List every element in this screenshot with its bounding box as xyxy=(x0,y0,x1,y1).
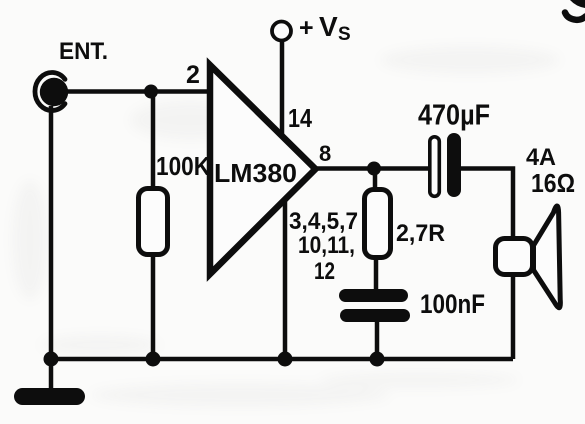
input jack ENT. xyxy=(35,73,68,111)
svg-text:V: V xyxy=(319,11,338,42)
svg-text:10,11,: 10,11, xyxy=(298,232,355,259)
capacitor 470uF xyxy=(430,133,461,197)
svg-text:ENT.: ENT. xyxy=(59,38,108,65)
resistor 100K xyxy=(139,189,168,255)
pin 12 label xyxy=(314,258,335,285)
pin 2 label xyxy=(186,61,200,89)
svg-text:8: 8 xyxy=(319,141,331,166)
node: 100nF/rail junction xyxy=(370,352,385,367)
speaker xyxy=(496,206,561,308)
wire: 100nF to rail xyxy=(375,320,380,359)
wire: speaker to rail xyxy=(511,276,516,359)
terminal +Vs xyxy=(272,22,291,41)
wire: ground stem xyxy=(49,359,54,392)
node: LM380 ground/rail junction xyxy=(278,352,293,367)
pin 14 label xyxy=(288,103,312,133)
ground xyxy=(14,388,85,405)
label ENT. xyxy=(59,38,108,65)
wire: input to pin 2 xyxy=(60,89,210,94)
wire: 2,7R to 100nF xyxy=(374,260,379,292)
capacitor 100nF xyxy=(339,289,410,322)
node: 100K/rail junction xyxy=(146,352,161,367)
wire: output node to 2,7R xyxy=(373,169,378,191)
node: output junction xyxy=(367,162,381,176)
svg-text:12: 12 xyxy=(314,258,335,285)
wire: bottom ground rail xyxy=(51,357,513,362)
wire: 100K branch vertical xyxy=(151,92,156,360)
svg-text:+: + xyxy=(299,14,314,42)
svg-text:16Ω: 16Ω xyxy=(531,168,575,198)
svg-text:LM380: LM380 xyxy=(214,158,297,188)
svg-text:S: S xyxy=(338,24,351,45)
label +Vs xyxy=(299,11,351,45)
node: input/rail junction xyxy=(44,352,59,367)
svg-text:470µF: 470µF xyxy=(418,100,490,132)
wire: LM380 ground pins to rail xyxy=(283,200,288,359)
label LM380 xyxy=(214,158,297,188)
node: input/100K junction xyxy=(144,85,158,99)
page number 5 (clipped) xyxy=(565,0,585,20)
wire: 470uF to speaker xyxy=(461,169,513,239)
svg-text:100nF: 100nF xyxy=(420,289,485,319)
svg-text:14: 14 xyxy=(288,103,312,133)
op-amp LM380 triangle xyxy=(210,65,316,274)
label 4A xyxy=(526,144,556,171)
svg-text:2,7R: 2,7R xyxy=(396,220,445,247)
wire: input jack down to rail xyxy=(49,106,54,359)
svg-text:4A: 4A xyxy=(526,144,556,171)
label 100K xyxy=(156,151,210,181)
svg-text:100K: 100K xyxy=(156,151,210,181)
pin 8 label xyxy=(319,141,331,166)
pin 10,11 label xyxy=(298,232,355,259)
wire: +Vs to pin 14 xyxy=(280,40,285,137)
label 100nF xyxy=(420,289,485,319)
svg-text:2: 2 xyxy=(186,61,200,89)
label 2,7R xyxy=(396,220,445,247)
label 470uF xyxy=(418,100,490,132)
pin 3,4,5,7 label xyxy=(289,208,358,235)
resistor 2,7R xyxy=(365,190,391,258)
wire: output pin 8 xyxy=(317,166,429,171)
svg-text:3,4,5,7: 3,4,5,7 xyxy=(289,208,358,235)
label 16 ohm xyxy=(531,168,575,198)
